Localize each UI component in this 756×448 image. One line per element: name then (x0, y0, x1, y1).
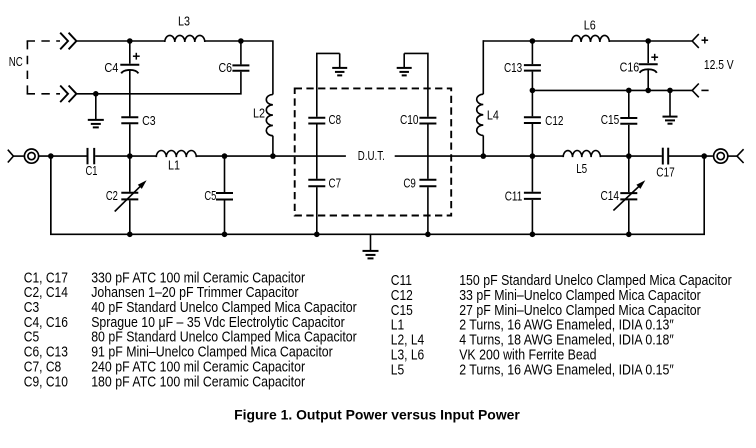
wire C15 lower (628, 125, 630, 156)
svg-text:VK 200 with Ferrite Bead: VK 200 with Ferrite Bead (459, 347, 596, 363)
svg-text:D.U.T.: D.U.T. (358, 149, 385, 163)
node C13 bottom junction (530, 88, 536, 94)
wire colA rail-C2 (129, 156, 131, 192)
wire bottom rail (51, 156, 704, 234)
svg-text:C13: C13 (504, 60, 522, 75)
svg-text:240 pF ATC 100 mil Ceramic Cap: 240 pF ATC 100 mil Ceramic Capacitor (91, 359, 305, 375)
svg-text:40 pF Standard Unelco Clamped: 40 pF Standard Unelco Clamped Mica Capac… (91, 300, 357, 316)
node input connector (8, 150, 14, 163)
wire C11 upper (531, 156, 533, 192)
svg-text:4 Turns, 18 AWG Enameled, IDIA: 4 Turns, 18 AWG Enameled, IDIA 0.18″ (459, 333, 674, 349)
capacitor C9 (419, 179, 436, 181)
svg-text:C9, C10: C9, C10 (24, 374, 68, 390)
wire C10 gnd jog (404, 53, 428, 116)
capacitor C13 (524, 64, 541, 66)
svg-text:180 pF ATC 100 mil Ceramic Cap: 180 pF ATC 100 mil Ceramic Capacitor (91, 374, 305, 390)
node C16 top (645, 38, 651, 44)
node output connector (714, 149, 728, 163)
wire C16 lower (647, 69, 649, 91)
inductor L6 (572, 35, 610, 42)
ground G4 (669, 90, 671, 116)
node NC chevron pair bottom (60, 86, 68, 103)
svg-text:Johansen 1–20 pF Trimmer Capac: Johansen 1–20 pF Trimmer Capacitor (91, 285, 298, 301)
svg-text:C3: C3 (142, 113, 156, 128)
inductor L3 (165, 35, 205, 42)
capacitor C15 (620, 117, 637, 119)
wire C16 upper (647, 41, 649, 63)
svg-text:C5: C5 (204, 188, 216, 203)
svg-text:C6, C13: C6, C13 (24, 345, 68, 361)
capacitor C7 (308, 179, 325, 181)
node minus terminal (692, 84, 699, 98)
wire input shunt leg (50, 156, 52, 234)
node C15 bottom junction (626, 153, 632, 159)
capacitor C2 trimmer (121, 192, 138, 194)
svg-text:C3: C3 (24, 300, 39, 316)
wire right second rail (532, 89, 692, 91)
inductor L4 (477, 94, 484, 135)
wire C8 gnd jog (317, 53, 340, 116)
capacitor C4 (120, 64, 139, 66)
svg-text:L5: L5 (576, 161, 587, 176)
svg-text:C17: C17 (656, 164, 675, 179)
svg-text:C2, C14: C2, C14 (24, 285, 68, 301)
wire top-left rail (77, 40, 165, 42)
wire C7-bottom (316, 187, 318, 234)
node C16 plus (651, 56, 658, 58)
node C12 junction (530, 153, 536, 159)
wire C13 lower (531, 72, 533, 91)
ground center (370, 234, 372, 251)
wire L4 upper (482, 40, 484, 94)
wire L1 to DUT (196, 155, 346, 157)
svg-text:12.5 V: 12.5 V (704, 57, 734, 72)
wire C5 upper (224, 156, 226, 192)
capacitor C8 (308, 117, 325, 119)
svg-text:C15: C15 (601, 112, 620, 127)
svg-text:2 Turns, 16 AWG Enameled, IDIA: 2 Turns, 16 AWG Enameled, IDIA 0.13″ (459, 318, 674, 334)
svg-text:L1: L1 (391, 318, 404, 334)
capacitor C11 (524, 192, 541, 194)
svg-text:L2, L4: L2, L4 (391, 333, 424, 349)
svg-text:C1, C17: C1, C17 (24, 270, 68, 286)
node L2 junction (270, 153, 276, 159)
node C13 top (530, 38, 536, 44)
wire L5 to C17 (600, 155, 662, 157)
wire C1 to node A (95, 155, 156, 157)
wire C14 upper (628, 156, 630, 192)
wire colA C3-rail (129, 124, 131, 156)
svg-text:C9: C9 (403, 176, 416, 191)
node input junction (48, 153, 54, 159)
node C6 top (238, 38, 244, 44)
D.U.T. box (295, 88, 452, 215)
inductor L2 (266, 95, 273, 136)
capacitor C3 (121, 116, 138, 118)
svg-text:C4: C4 (104, 60, 118, 75)
wire C10-rail-C9 (427, 125, 429, 179)
svg-text:C7: C7 (329, 176, 342, 191)
svg-text:91 pF Mini–Unelco Clamped Mica: 91 pF Mini–Unelco Clamped Mica Capacitor (91, 345, 333, 361)
svg-text:C5: C5 (24, 330, 39, 346)
svg-text:C7, C8: C7, C8 (24, 359, 61, 375)
node C5 bottom (222, 232, 228, 238)
svg-text:330 pF ATC 100 mil Ceramic Cap: 330 pF ATC 100 mil Ceramic Capacitor (91, 270, 305, 286)
capacitor C14 trimmer (620, 192, 637, 194)
capacitor C12 (524, 116, 541, 118)
svg-text:C16: C16 (620, 59, 640, 74)
node C14 bottom (626, 232, 632, 238)
svg-text:L5: L5 (391, 362, 404, 378)
svg-text:Figure 1. Output Power versus: Figure 1. Output Power versus Input Powe… (234, 406, 520, 422)
svg-text:33 pF Mini–Unelco Clamped Mica: 33 pF Mini–Unelco Clamped Mica Capacitor (459, 288, 701, 304)
node A top (127, 38, 133, 44)
wire C9-bottom (427, 187, 429, 234)
svg-text:80 pF Standard Unelco Clamped: 80 pF Standard Unelco Clamped Mica Capac… (91, 330, 357, 346)
wire C12 lower (531, 124, 533, 156)
svg-text:150 pF Standard Unelco Clamped: 150 pF Standard Unelco Clamped Mica Capa… (459, 273, 732, 289)
svg-text:NC: NC (9, 54, 23, 69)
capacitor C10 (419, 117, 436, 119)
node C5 junction (222, 153, 228, 159)
wire C15 upper (628, 90, 630, 117)
svg-text:C14: C14 (600, 188, 619, 203)
wire colA C4-C3 (129, 70, 131, 117)
wire C11 lower (531, 200, 533, 234)
wire C6 upper (240, 41, 242, 64)
node L4 junction (481, 153, 487, 159)
svg-text:C15: C15 (391, 303, 413, 319)
svg-text:C12: C12 (391, 288, 413, 304)
wire colA upper (129, 41, 131, 64)
svg-text:C8: C8 (329, 112, 342, 127)
svg-text:L1: L1 (168, 158, 180, 173)
inductor L5 (563, 150, 600, 157)
node C7 bottom (314, 232, 320, 238)
svg-text:L3, L6: L3, L6 (391, 347, 424, 363)
node NC chevron pair top (60, 33, 68, 50)
svg-text:L4: L4 (487, 107, 499, 122)
node G4 junction (667, 88, 673, 94)
wire colA C2-bottom (129, 200, 131, 234)
svg-text:L3: L3 (178, 14, 190, 29)
svg-text:2 Turns, 16 AWG Enameled, IDIA: 2 Turns, 16 AWG Enameled, IDIA 0.15″ (459, 362, 674, 378)
ground G3 (403, 53, 405, 68)
capacitor C5 (216, 192, 233, 194)
capacitor C1 (87, 148, 89, 164)
wire top-right rail (483, 40, 571, 42)
ground G1 (95, 94, 97, 120)
svg-text:L2: L2 (253, 106, 265, 121)
node C11 bottom (530, 232, 536, 238)
svg-text:Sprague 10 μF – 35 Vdc Electro: Sprague 10 μF – 35 Vdc Electrolytic Capa… (91, 315, 345, 331)
capacitor C6 (232, 64, 249, 66)
svg-text:C1: C1 (86, 163, 98, 178)
wire C14 lower (628, 200, 630, 234)
svg-text:C6: C6 (219, 60, 233, 75)
svg-text:27 pF Mini–Unelco Clamped Mica: 27 pF Mini–Unelco Clamped Mica Capacitor (459, 303, 701, 319)
svg-text:C11: C11 (391, 273, 412, 289)
node A mid (127, 153, 133, 159)
node plus terminal (692, 34, 699, 48)
capacitor C16 (639, 63, 658, 65)
svg-text:C4, C16: C4, C16 (24, 315, 68, 331)
wire lower NC rail (77, 72, 241, 94)
capacitor C17 (662, 148, 664, 165)
ground G2 (339, 53, 341, 68)
wire NC dashed stub (26, 41, 28, 94)
wire C5 lower (224, 201, 226, 235)
wire C12 upper (531, 90, 533, 116)
wire C13 upper (531, 41, 533, 64)
wire C8-rail-C7 (316, 125, 318, 179)
svg-text:C10: C10 (400, 112, 419, 127)
svg-text:C12: C12 (545, 113, 563, 128)
wire L4 to rail (482, 135, 484, 156)
node C4 plus (133, 55, 140, 57)
svg-text:L6: L6 (584, 18, 596, 33)
node C16 bottom junction (645, 88, 651, 94)
wire DUT rail right segment (395, 155, 564, 157)
inductor L1 (156, 151, 196, 158)
node output junction (701, 153, 707, 159)
svg-text:C2: C2 (106, 188, 118, 203)
node A bottom (127, 232, 133, 238)
svg-text:C11: C11 (505, 188, 523, 203)
node C15 top junction (626, 88, 632, 94)
wire L2 to rail (272, 136, 274, 156)
node G1 junction (93, 91, 99, 97)
wire C17 to output (669, 155, 713, 157)
node C9 bottom (425, 232, 431, 238)
